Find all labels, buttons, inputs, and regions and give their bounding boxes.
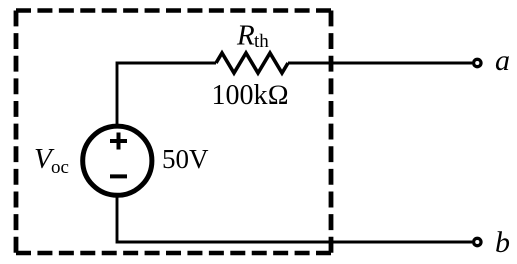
dashed Thevenin equivalent box	[16, 11, 331, 254]
wire bottom	[117, 198, 472, 243]
svg-text:100kΩ: 100kΩ	[212, 80, 290, 111]
svg-text:th: th	[254, 31, 269, 52]
svg-text:a: a	[495, 44, 510, 77]
wire resistor to terminal a	[288, 62, 472, 65]
svg-text:b: b	[495, 226, 510, 259]
plus sign	[110, 133, 127, 150]
svg-text:R: R	[236, 20, 255, 52]
svg-text:oc: oc	[51, 157, 69, 178]
voltage source V_oc circle	[83, 126, 152, 195]
terminal b	[474, 238, 481, 245]
svg-text:50V: 50V	[162, 144, 209, 174]
wire top-left	[117, 63, 216, 124]
terminal a	[474, 59, 481, 66]
resistor R_th	[216, 53, 288, 73]
minus sign	[110, 174, 127, 178]
